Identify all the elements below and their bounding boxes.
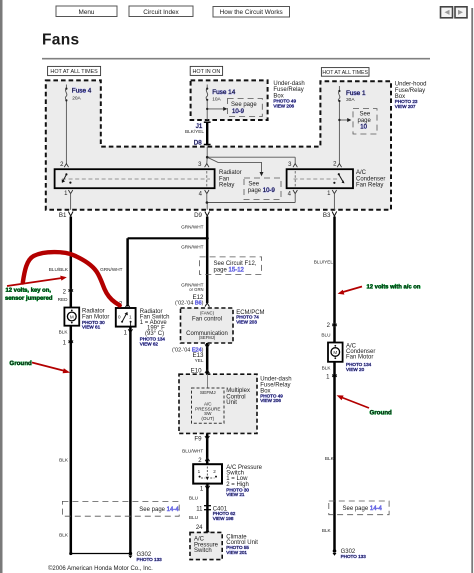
- svg-text:YEL: YEL: [195, 358, 204, 363]
- svg-text:Menu: Menu: [79, 9, 95, 16]
- svg-text:Radiator: Radiator: [219, 170, 242, 176]
- svg-text:2: 2: [327, 323, 331, 329]
- svg-text:11: 11: [196, 506, 203, 512]
- svg-text:sensor jumpered: sensor jumpered: [5, 296, 53, 302]
- svg-text:10: 10: [360, 124, 367, 130]
- svg-text:VIEW 201: VIEW 201: [226, 550, 247, 555]
- svg-text:20A: 20A: [72, 96, 81, 102]
- svg-text:Fan: Fan: [219, 176, 229, 182]
- svg-text:Condenser: Condenser: [356, 176, 385, 182]
- svg-text:Circuit Index: Circuit Index: [143, 9, 179, 16]
- svg-text:B3: B3: [323, 212, 331, 219]
- svg-text:SEFMJ: SEFMJ: [200, 390, 216, 396]
- svg-text:Fan Motor: Fan Motor: [346, 354, 373, 360]
- svg-text:M: M: [70, 314, 74, 319]
- svg-text:page 15-12: page 15-12: [214, 268, 245, 274]
- svg-text:24: 24: [196, 525, 203, 531]
- svg-text:30A: 30A: [346, 97, 355, 103]
- svg-text:12 volts, key on,: 12 volts, key on,: [5, 288, 51, 294]
- svg-text:Fuse 4: Fuse 4: [72, 88, 92, 95]
- svg-text:HOT IN ON: HOT IN ON: [193, 69, 221, 75]
- svg-text:page: page: [358, 118, 372, 124]
- svg-text:1: 1: [326, 374, 330, 380]
- svg-text:Radiator: Radiator: [82, 308, 105, 314]
- svg-text:D9: D9: [194, 212, 202, 219]
- svg-text:GRN/WHT: GRN/WHT: [100, 267, 123, 272]
- svg-text:F9: F9: [194, 436, 202, 443]
- svg-text:BLK: BLK: [325, 456, 335, 461]
- svg-text:Fuse/Relay: Fuse/Relay: [273, 87, 303, 93]
- svg-text:M: M: [333, 350, 337, 355]
- svg-text:GRN/WHT: GRN/WHT: [181, 245, 204, 250]
- svg-text:B1: B1: [59, 212, 67, 219]
- svg-text:Fan control: Fan control: [192, 317, 222, 323]
- svg-text:VIEW 21: VIEW 21: [226, 492, 245, 497]
- svg-text:Fuse 14: Fuse 14: [212, 89, 236, 96]
- svg-text:Under-hood: Under-hood: [395, 82, 427, 88]
- svg-text:10-9: 10-9: [263, 188, 276, 194]
- svg-text:HOT AT ALL TIMES: HOT AT ALL TIMES: [322, 70, 368, 76]
- svg-text:BLU: BLU: [189, 515, 199, 520]
- svg-text:1: 1: [200, 487, 204, 493]
- svg-text:1: 1: [129, 315, 132, 320]
- svg-text:BLU/WHT: BLU/WHT: [182, 449, 203, 454]
- svg-text:A/C: A/C: [356, 170, 367, 176]
- svg-text:See page 14-4: See page 14-4: [139, 507, 179, 513]
- svg-text:Under-dash: Under-dash: [260, 376, 291, 382]
- svg-text:VIEW 203: VIEW 203: [236, 319, 257, 324]
- svg-text:PHOTO 133: PHOTO 133: [341, 554, 367, 559]
- svg-text:VIEW 61: VIEW 61: [82, 325, 101, 330]
- svg-text:1: 1: [63, 341, 67, 347]
- svg-text:or GRN: or GRN: [189, 287, 203, 292]
- svg-text:Switch: Switch: [194, 548, 212, 554]
- svg-text:Multiplex: Multiplex: [226, 388, 250, 394]
- svg-text:BLK: BLK: [322, 528, 332, 533]
- svg-text:1: 1: [124, 331, 128, 337]
- svg-text:(FANC): (FANC): [200, 311, 215, 316]
- svg-text:BLK: BLK: [322, 366, 332, 371]
- svg-text:See: See: [248, 181, 259, 187]
- svg-text:VIEW 198: VIEW 198: [213, 516, 234, 521]
- svg-text:See Circuit F12,: See Circuit F12,: [214, 261, 257, 267]
- svg-text:BLK: BLK: [59, 458, 69, 463]
- svg-text:Relay: Relay: [219, 183, 234, 189]
- svg-text:VIEW 206: VIEW 206: [273, 103, 294, 108]
- svg-text:GRN/WHT: GRN/WHT: [181, 225, 204, 230]
- svg-text:0: 0: [118, 315, 121, 320]
- svg-text:Unit: Unit: [226, 400, 237, 406]
- svg-text:RED: RED: [58, 297, 69, 302]
- svg-text:10-9: 10-9: [232, 109, 245, 115]
- svg-text:BLK/YEL: BLK/YEL: [185, 129, 204, 134]
- svg-text:See: See: [360, 112, 371, 118]
- svg-text:BLK: BLK: [59, 330, 69, 335]
- svg-text:Ground: Ground: [9, 360, 32, 367]
- svg-text:Ground: Ground: [369, 409, 392, 416]
- svg-text:BLU: BLU: [321, 332, 331, 337]
- svg-text:See page: See page: [231, 102, 257, 108]
- svg-text:©2006 American Honda Motor Co.: ©2006 American Honda Motor Co., Inc.: [48, 565, 153, 572]
- svg-text:1: 1: [198, 469, 201, 474]
- svg-text:12 volts with a/c on: 12 volts with a/c on: [366, 284, 420, 290]
- svg-text:Under-dash: Under-dash: [273, 81, 304, 87]
- svg-text:2: 2: [213, 469, 216, 474]
- svg-text:VIEW 207: VIEW 207: [395, 104, 416, 109]
- svg-text:BLU/BLK: BLU/BLK: [49, 267, 69, 272]
- svg-text:Fan Relay: Fan Relay: [356, 183, 383, 189]
- svg-text:BLU/YEL: BLU/YEL: [314, 259, 334, 264]
- svg-text:10A: 10A: [212, 96, 221, 102]
- svg-text:Fuse/Relay: Fuse/Relay: [395, 88, 425, 94]
- svg-text:VIEW 20: VIEW 20: [346, 367, 365, 372]
- svg-text:page: page: [248, 188, 262, 194]
- svg-text:(OUT): (OUT): [201, 416, 214, 421]
- svg-text:(’02-’04 B6): (’02-’04 B6): [175, 301, 204, 307]
- svg-text:2: 2: [63, 290, 67, 296]
- svg-text:How the Circuit Works: How the Circuit Works: [220, 9, 283, 16]
- svg-text:Fuse 1: Fuse 1: [346, 90, 366, 97]
- svg-text:Fans: Fans: [42, 32, 79, 49]
- svg-text:BLU: BLU: [189, 496, 199, 501]
- svg-text:VIEW 62: VIEW 62: [140, 341, 159, 346]
- svg-text:HOT AT ALL TIMES: HOT AT ALL TIMES: [50, 69, 98, 75]
- svg-text:VIEW 206: VIEW 206: [260, 398, 281, 403]
- svg-text:D8: D8: [194, 139, 202, 146]
- svg-text:PHOTO 133: PHOTO 133: [137, 557, 163, 562]
- svg-text:BLK: BLK: [59, 533, 69, 538]
- svg-text:See page 14-4: See page 14-4: [343, 506, 383, 512]
- svg-text:(SEFMJ): (SEFMJ): [199, 335, 216, 340]
- svg-text:2: 2: [198, 458, 202, 464]
